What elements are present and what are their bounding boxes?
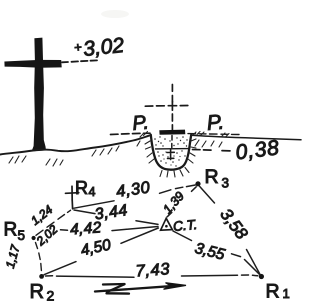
svg-text:R: R [205, 166, 219, 188]
svg-text:4,42: 4,42 [70, 219, 103, 238]
svg-text:4: 4 [89, 185, 96, 199]
svg-text:C.T.: C.T. [172, 217, 197, 234]
svg-text:3: 3 [222, 176, 230, 191]
svg-text:R: R [266, 281, 280, 303]
svg-text:5: 5 [18, 228, 26, 243]
svg-text:R: R [30, 281, 44, 303]
svg-text:R: R [75, 178, 88, 198]
svg-text:7,43: 7,43 [135, 260, 171, 280]
svg-text:3,02: 3,02 [82, 34, 125, 61]
svg-text:R: R [4, 220, 18, 241]
svg-text:2: 2 [47, 288, 55, 304]
svg-text:P.: P. [206, 111, 225, 135]
svg-text:1: 1 [283, 286, 290, 301]
